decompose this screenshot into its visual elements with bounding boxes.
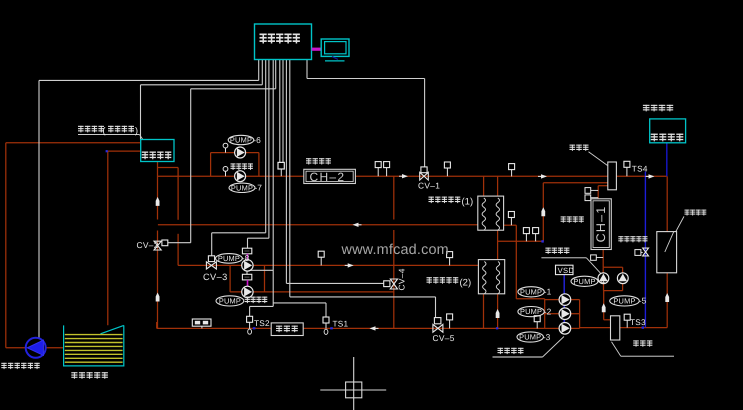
collector header xyxy=(611,316,620,340)
svg-text:TS4: TS4 xyxy=(632,164,648,173)
wire VSD drive line xyxy=(563,275,565,324)
monitor xyxy=(321,39,349,61)
label chiller CH-1 name xyxy=(561,216,584,222)
svg-text:-2: -2 xyxy=(544,306,552,316)
label glycol tank xyxy=(71,372,108,379)
pipe HX1 right coil riser xyxy=(497,176,499,196)
valve CV-4 xyxy=(390,279,397,289)
tank device leader xyxy=(665,216,684,252)
control wiring box 1 xyxy=(141,140,174,162)
pump PUMP-1 symbol xyxy=(559,294,571,306)
condenser pump label underline leader xyxy=(541,257,586,259)
wire junction box tap to pipe xyxy=(280,169,282,176)
label variable speed pumps xyxy=(498,348,524,354)
label expansion tank xyxy=(643,105,673,112)
pipe distributor outlet stub xyxy=(598,185,608,187)
sensor pump suction xyxy=(534,316,540,329)
flow arrow supply xyxy=(399,174,408,178)
sensor pair after CH-2 xyxy=(375,162,381,177)
pipe supply drop to HX1 left coil xyxy=(483,176,485,196)
svg-text:-1: -1 xyxy=(544,287,552,297)
pipe discharge header to bottom run xyxy=(580,327,611,329)
pump PUMP-8 symbol xyxy=(242,260,253,271)
sensor after CV-5 xyxy=(447,314,453,329)
flow arrow tank drop xyxy=(665,293,669,302)
control wiring box 1 text xyxy=(142,152,171,160)
pipe pump4 outlet xyxy=(603,283,605,290)
pipe PUMP-6 loop right xyxy=(258,153,260,177)
svg-text:TS2: TS2 xyxy=(254,319,270,328)
label glycol pump text xyxy=(231,163,253,170)
svg-text:PUMP: PUMP xyxy=(230,136,252,145)
pipe suction header xyxy=(544,299,546,329)
pipe HX1 right coil drop to cross line xyxy=(497,230,499,259)
pipe pumps45 bottom header xyxy=(604,290,623,292)
pipe control box bottom riser lower xyxy=(157,231,159,329)
node junction dots xyxy=(106,150,644,329)
pipe tank2 drop xyxy=(666,273,668,328)
sensor TS2 xyxy=(247,316,253,328)
pipe to distributor lower xyxy=(543,182,608,184)
pump PUMP-4 symbol xyxy=(598,273,609,284)
label glycol feed pump xyxy=(1,363,39,369)
pipe left riser top feed xyxy=(6,142,141,144)
pipe pumps45 top header xyxy=(603,266,622,268)
pipe pump2 discharge run xyxy=(265,291,394,293)
pump PUMP-8 starter xyxy=(242,248,251,254)
svg-text:CV–5: CV–5 xyxy=(433,333,455,343)
wire bundle 2 to control box 1 xyxy=(261,60,263,85)
svg-text:CV–1: CV–1 xyxy=(418,180,440,190)
sensor before HX2 xyxy=(447,252,453,266)
svg-text:-3: -3 xyxy=(543,332,551,342)
flow arrow before distributor xyxy=(538,174,547,178)
svg-text:(1): (1) xyxy=(462,196,474,207)
label condenser pump xyxy=(545,248,569,254)
label PUMP-4 xyxy=(571,276,605,286)
pipe left riser xyxy=(5,143,7,348)
valve CV-2 actuator xyxy=(162,240,168,246)
monitor link cable xyxy=(312,48,322,51)
central processor box xyxy=(255,24,312,60)
glycol feed pump xyxy=(26,338,46,358)
distributor leader xyxy=(589,152,608,166)
pipe drop to collector xyxy=(603,291,605,320)
sensor on header run xyxy=(509,164,515,177)
wire bundle 7 to junction box xyxy=(282,60,284,163)
pump chilled starter xyxy=(242,274,251,280)
label distributor xyxy=(570,145,589,151)
wire bundle 10 to valve CV-2 xyxy=(275,60,277,89)
pipe control box bottom riser upper xyxy=(157,161,159,219)
label chiller CH-2 name xyxy=(306,158,331,164)
gauge circle pump6 xyxy=(223,143,228,152)
wire bundle 6 to junction box xyxy=(279,60,281,163)
svg-text:PUMP: PUMP xyxy=(218,254,240,263)
label collector xyxy=(633,340,652,346)
sensor HX1 outlet xyxy=(508,212,514,226)
sensor CH-1 lower xyxy=(585,195,598,201)
pressure sensing valve symbol xyxy=(643,248,649,256)
label PUMP-3 xyxy=(517,332,551,342)
svg-text:-6: -6 xyxy=(253,135,261,145)
pipe header feed riser with arrow xyxy=(542,183,544,242)
pipe pump line CV-3 to HX2 xyxy=(178,264,478,266)
pipe collector outlet run xyxy=(620,327,667,329)
sensor before HX1 xyxy=(444,162,450,176)
pipe pump2 branch lower xyxy=(230,291,264,293)
pump PUMP-7 symbol xyxy=(235,171,246,182)
glycol tank outline xyxy=(64,325,124,366)
label PUMP-5 xyxy=(610,296,647,306)
wire branch to TS1 xyxy=(273,302,326,304)
wire branch to chilled pump starter xyxy=(247,269,273,271)
pipe pump2 suction stub xyxy=(545,313,560,315)
valve CV-2 xyxy=(154,241,161,250)
pump PUMP-5 symbol xyxy=(617,273,628,284)
label PUMP-6 xyxy=(228,135,261,145)
pipe HX1 cross line xyxy=(498,240,543,242)
wire processor right to valve CV-1 xyxy=(306,60,308,79)
flow arrow collector drop xyxy=(602,303,606,312)
pump chilled water symbol xyxy=(242,286,253,297)
wire expansion tank level line xyxy=(666,143,668,177)
sensor TS4 xyxy=(624,161,630,176)
pipe CV-4 bypass riser xyxy=(393,176,395,219)
svg-text:PUMP: PUMP xyxy=(573,277,595,286)
svg-text:CV–2: CV–2 xyxy=(137,240,159,250)
pipe tank top feed horizontal xyxy=(108,150,141,152)
pipe CH-1 bottom drop xyxy=(602,250,604,268)
control wiring box 2 text xyxy=(651,134,684,142)
pipe pump2 parallel branch down xyxy=(229,265,231,292)
valve CV-5 actuator xyxy=(434,318,441,324)
svg-text:CH–2: CH–2 xyxy=(310,170,346,184)
control wiring box 2 xyxy=(650,119,686,143)
pipe bottom main left corner xyxy=(156,322,158,328)
VSD box xyxy=(556,265,574,274)
pipe supply branch stub xyxy=(158,167,179,169)
wire bundle 9 to valve CV-5 xyxy=(289,60,291,297)
central processor text xyxy=(260,34,300,44)
collector underline leader xyxy=(621,355,674,357)
svg-text:PUMP: PUMP xyxy=(231,183,253,192)
pipe pump3 discharge stub xyxy=(570,327,579,329)
pipe tank2 feed drop xyxy=(666,176,668,231)
ice storage tank text xyxy=(276,326,298,333)
svg-text:PUMP: PUMP xyxy=(520,287,542,296)
svg-text:): ) xyxy=(135,125,138,135)
pipe discharge header xyxy=(579,300,581,329)
pressure differential switch xyxy=(635,250,643,256)
wire branch to TS2 xyxy=(250,305,274,307)
plate heat exchanger 1 xyxy=(478,196,504,230)
pipe glycol pump discharge to tank xyxy=(46,347,64,349)
valve CV-1 xyxy=(420,172,429,180)
wire bundle 3 to valve CV-3 xyxy=(265,60,267,233)
pipe pump2 branch up xyxy=(264,265,266,292)
svg-text:VSD: VSD xyxy=(558,266,575,275)
junction box on control wires xyxy=(278,162,284,169)
pipe pump1 discharge stub xyxy=(570,299,579,301)
valve CV-1 actuator xyxy=(421,167,427,173)
label PUMP-7 xyxy=(229,183,262,193)
pipe pump2 discharge stub xyxy=(570,313,579,315)
svg-text:PUMP: PUMP xyxy=(520,307,542,316)
chiller CH-1 box xyxy=(591,199,611,250)
flow arrow HX2 right drop xyxy=(496,309,500,318)
flow arrow pump line xyxy=(345,263,354,267)
pipe supply main from control-box riser to expansion junction xyxy=(158,175,667,177)
svg-text:CV–4: CV–4 xyxy=(397,268,407,290)
label PUMP-8 xyxy=(216,253,250,263)
pipe pump5 outlet xyxy=(622,283,624,290)
svg-text:-7: -7 xyxy=(255,183,263,193)
gauge circle pump7 xyxy=(223,167,228,177)
svg-text:(: ( xyxy=(103,125,106,135)
pipe pump3 suction stub xyxy=(545,327,560,329)
svg-text:-8: -8 xyxy=(242,253,250,263)
svg-text:-5: -5 xyxy=(639,296,647,306)
label underline and leader xyxy=(78,134,140,136)
svg-text:CV–3: CV–3 xyxy=(203,272,228,282)
label plate HX 2 xyxy=(427,277,459,284)
pipe collector inlet xyxy=(604,319,611,321)
label PUMP-2 xyxy=(518,306,552,316)
pipe PUMP-6 loop left xyxy=(210,153,212,177)
pipe HX2 left coil drop xyxy=(483,294,485,329)
sensor on pump line xyxy=(318,251,324,265)
label pressure differential controller xyxy=(618,236,647,242)
pipe PUMP-6 loop top xyxy=(211,152,259,154)
pipe HX2 right coil drop xyxy=(497,294,499,329)
sensor TS1 xyxy=(323,317,329,328)
sensor pair HX1 cross line xyxy=(523,228,529,242)
distributor header xyxy=(608,162,617,190)
label water tank device xyxy=(685,210,707,216)
svg-text:PUMP: PUMP xyxy=(519,333,541,342)
pipe bottom main xyxy=(157,327,545,329)
ice storage tank label box xyxy=(271,323,303,336)
flow arrow bottom main xyxy=(370,326,379,330)
flow arrow left riser lower xyxy=(156,293,160,302)
label PUMP chilled xyxy=(216,296,244,306)
svg-text:TS3: TS3 xyxy=(630,318,646,327)
pipe CH-1 top feed xyxy=(597,186,599,199)
flow arrow after distributor xyxy=(646,174,655,178)
glycol tank liquid lines xyxy=(65,335,123,363)
svg-text:PUMP: PUMP xyxy=(613,297,635,306)
plate heat exchanger 2 xyxy=(478,260,504,294)
sensor CH-1 upper xyxy=(585,188,598,194)
variable pumps underline leader xyxy=(493,356,543,358)
pump PUMP-3 symbol xyxy=(559,323,571,335)
wire bundle 4 to PUMP-8 starter xyxy=(268,60,270,239)
label plate HX 1 xyxy=(429,197,461,204)
label expansion tank vent xyxy=(78,126,104,133)
svg-text:(2): (2) xyxy=(460,277,472,288)
sensor CH-1 bottom xyxy=(591,255,604,260)
wire bundle 8 to valve CV-4 xyxy=(285,60,287,284)
cad crosshair cursor xyxy=(320,357,386,410)
flow arrow left riser upper xyxy=(156,197,160,206)
water storage tank xyxy=(657,232,677,273)
wire starter link PUMP-8 xyxy=(247,254,249,261)
flow arrow return main xyxy=(353,223,362,227)
pipe glycol pump suction xyxy=(6,347,26,349)
pipe pump5 inlet xyxy=(622,267,624,273)
pump PUMP-6 symbol xyxy=(235,147,246,158)
wire bundle 5 to pump starter and TS1 TS2 xyxy=(272,60,274,307)
valve CV-5 xyxy=(433,324,443,332)
pipe tank top feed riser xyxy=(107,151,109,325)
svg-text:-4: -4 xyxy=(598,276,606,286)
chiller CH-2 box xyxy=(304,169,356,183)
pipe return drop to pump suction xyxy=(515,225,517,299)
valve CV-4 actuator xyxy=(384,281,390,287)
label PUMP-1 xyxy=(518,287,552,297)
svg-text:CH–1: CH–1 xyxy=(594,206,608,243)
pipe suction run xyxy=(516,298,544,300)
svg-text:PUMP: PUMP xyxy=(219,297,241,306)
pipe branch drop to pump line xyxy=(177,168,179,220)
svg-text:www.mfcad.com: www.mfcad.com xyxy=(341,242,449,258)
pipe pump4 inlet xyxy=(602,267,604,273)
pipe return main xyxy=(158,224,478,226)
pipe pump1 suction stub xyxy=(545,299,560,301)
wire bundle 1 to glycol feed pump xyxy=(258,60,260,81)
pipe HX1 outlet stub xyxy=(504,224,517,226)
valve CV-3 actuator xyxy=(208,256,214,262)
pump PUMP-2 symbol xyxy=(559,308,571,320)
svg-text:TS1: TS1 xyxy=(333,320,349,329)
flow arrow header riser xyxy=(541,207,545,216)
label chilled pump text xyxy=(245,297,268,304)
wire starter link chilled pump xyxy=(247,280,249,287)
sensor TS3 xyxy=(624,314,630,327)
flow meter on bottom main xyxy=(192,319,211,328)
valve CV-3 xyxy=(206,262,216,269)
wire differential pressure sensing line xyxy=(644,172,646,328)
